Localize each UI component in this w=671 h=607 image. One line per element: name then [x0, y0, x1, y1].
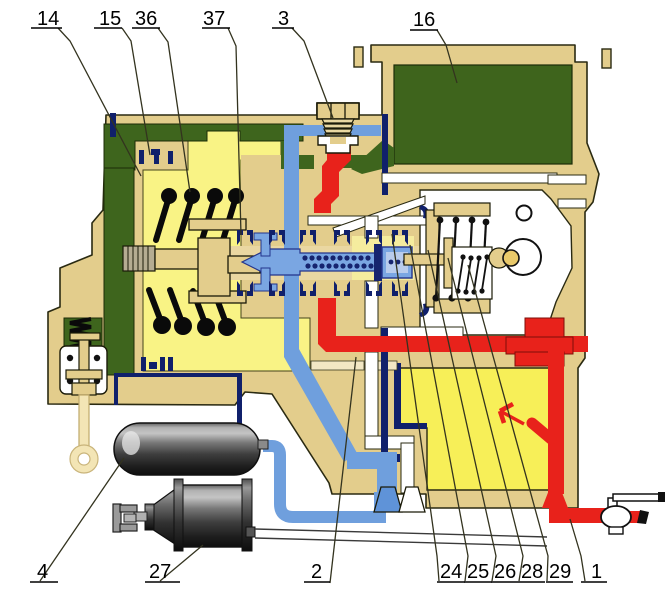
pale yellow around spool end [352, 236, 414, 280]
svg-text:1: 1 [591, 561, 602, 583]
numbers top [37, 8, 435, 31]
release valve T-handle [70, 333, 100, 340]
light cream passage strip left [311, 361, 364, 370]
brake chamber 27 cone [152, 487, 178, 546]
pull rod [79, 395, 89, 450]
drain valve handle arm [613, 494, 661, 501]
drain valve handle riser [608, 498, 617, 508]
leader 26 [428, 250, 496, 581]
inner spring box [452, 247, 492, 299]
small circle top [517, 206, 532, 221]
numbers bottom [37, 561, 602, 583]
piston stem right [228, 256, 260, 273]
svg-text:3: 3 [278, 8, 289, 30]
leader 16 [437, 30, 457, 83]
leader lines [40, 28, 585, 583]
number underlines bottom [30, 581, 607, 583]
tank highlight [122, 431, 140, 455]
red bell fitting [542, 490, 568, 508]
drain valve ball 1 [601, 506, 631, 528]
leader 4 [40, 458, 124, 581]
navy vertical channel upper part 2 [382, 183, 388, 195]
reservoir mounting tab left [354, 47, 363, 67]
white channel W5 horizontal [381, 327, 463, 337]
fitting 3 seat insert [330, 137, 346, 144]
fitting 3 valve seat [318, 136, 358, 153]
svg-text:37: 37 [203, 8, 225, 30]
pusher dome [489, 248, 509, 268]
inner mini spring [458, 258, 487, 291]
svg-text:28: 28 [521, 561, 543, 583]
blue elbow to port [347, 452, 396, 469]
piston return springs bottom coils [149, 290, 227, 326]
svg-text:2: 2 [311, 561, 322, 583]
seal row bottom [237, 281, 408, 296]
navy horizontal stub near port [367, 454, 400, 462]
seal row top [237, 230, 408, 245]
white channel W4 vertical lower [365, 352, 378, 438]
navy vertical channel lower (x 381) [381, 328, 388, 483]
svg-text:29: 29 [549, 561, 571, 583]
red vertical pipe right [548, 344, 564, 494]
chamber entrance navy seal bottom [419, 303, 429, 317]
black tip of drain pipe [637, 510, 649, 524]
tan wall above spool [241, 155, 353, 230]
leader 28 [448, 258, 523, 581]
spool cage window [386, 252, 408, 273]
dark green band 2a [289, 155, 314, 169]
piston block 37 [198, 238, 230, 296]
blue horizontal pipe under fitting [287, 125, 381, 136]
leader 37 [228, 28, 241, 235]
spool coil dots [302, 255, 373, 268]
navy tick top-left [110, 113, 116, 137]
svg-text:36: 36 [135, 8, 157, 30]
svg-text:16: 16 [413, 9, 435, 31]
white channel W4 down to port [401, 443, 414, 493]
white slot finger lower right [558, 199, 586, 208]
follow spring cage bottom bar [434, 299, 490, 313]
navy channel vertical at x237 [237, 373, 242, 425]
spool poppet stem lower [254, 268, 277, 291]
dark green band 2b [337, 155, 380, 168]
twin pipe to drain [255, 529, 547, 537]
air hose from tank (external) [263, 446, 380, 517]
spring bottom end dots [153, 316, 236, 336]
air tank 4 [114, 423, 260, 475]
white channel W3 diagonal [333, 196, 425, 237]
reservoir mounting tab right [602, 49, 611, 68]
white channel W4 vertical upper [365, 216, 378, 238]
brake chamber right rim [242, 479, 252, 551]
chamber main springs [436, 220, 486, 298]
white slot finger upper right [548, 175, 586, 184]
leader 3 [292, 28, 333, 118]
red channel lower vertical and horizontal to governor [318, 298, 588, 352]
clevis fork [113, 504, 121, 532]
red drain pipe bottom [549, 508, 606, 523]
small tan circle [503, 250, 519, 266]
blue diagonal channel to port [284, 349, 357, 462]
release valve cross bar [66, 370, 102, 379]
dark green wedge to filter [351, 140, 394, 174]
drain valve lower stem [609, 527, 623, 534]
brake chamber left rim [174, 479, 183, 551]
chamber entrance navy seal top [419, 205, 429, 219]
follow spring cage top bar [434, 203, 490, 216]
navy channel vertical at x116 [114, 373, 118, 405]
leader 15 [122, 28, 150, 155]
follow spring cage left wall [426, 210, 439, 307]
svg-text:25: 25 [467, 561, 489, 583]
spring top end dots [161, 188, 244, 204]
spool end cage blue [382, 247, 412, 278]
red ribbed block [506, 318, 573, 366]
dark green band top-left [104, 124, 303, 170]
bright yellow lower-right chamber [396, 368, 549, 490]
release valve bottom block [72, 383, 96, 395]
leader 14 [58, 28, 141, 176]
number underlines top [31, 28, 438, 30]
left pale yellow spring chamber [143, 141, 310, 371]
red channel from fitting 3 [314, 146, 351, 213]
chamber T plate [444, 238, 453, 288]
port bell left (blue) [374, 487, 402, 512]
svg-text:15: 15 [99, 8, 121, 30]
dark green column left [104, 168, 134, 375]
navy left edge of yellow chamber [394, 363, 401, 429]
navy seal cluster bottom-left [141, 357, 173, 371]
svg-text:4: 4 [37, 561, 48, 583]
navy channel horizontal bottom-left [118, 373, 238, 377]
navy vertical channel upper (x 381) [382, 114, 388, 173]
spool valve blue arrow [242, 249, 380, 275]
stem into chamber [404, 254, 452, 265]
fitting 3 hex head [317, 103, 359, 119]
release valve stem [79, 333, 89, 393]
big circle [505, 239, 541, 275]
white channel W4 vertical mid [365, 281, 378, 328]
light cream passage strip right [377, 361, 397, 370]
brake chamber nipple [246, 527, 255, 537]
red flow arrow head [500, 404, 513, 423]
tank nipple [258, 440, 268, 449]
red flow arrow stub [532, 423, 551, 439]
svg-text:27: 27 [149, 561, 171, 583]
release valve body [60, 346, 107, 394]
fitting 3 hex facets [331, 103, 345, 119]
drain valve handle tip [658, 492, 665, 502]
brake chamber small hub [145, 504, 154, 530]
red flow arrow shaft [502, 412, 524, 424]
release valve seals [67, 355, 100, 384]
svg-text:14: 14 [37, 8, 59, 30]
white slot under reservoir [382, 173, 557, 183]
main valve body housing [48, 45, 599, 508]
leader 24 [392, 234, 439, 581]
svg-text:24: 24 [440, 561, 462, 583]
spool cage dots [389, 260, 408, 265]
spool end plate navy [374, 244, 382, 281]
filter element 16 (dark green) [394, 65, 572, 164]
brake chamber push rod [134, 512, 147, 521]
leader 27 [160, 545, 203, 581]
blue vertical supply pipe [284, 125, 299, 355]
adjusting screw threads [123, 246, 155, 271]
port bell right (white) [399, 487, 425, 512]
leader 29 [468, 265, 548, 581]
white channel W4 elbow [365, 436, 414, 449]
release valve spring [70, 319, 91, 347]
white channel W2 horizontal [308, 216, 428, 225]
dark green block around release-valve spring [64, 318, 102, 348]
blue channel above left port [377, 452, 397, 502]
yellow notch in green band [207, 131, 240, 142]
dark green band 2 L-connector [281, 141, 289, 169]
white piston chamber (pentagon) [420, 190, 572, 335]
piston lower guide bar [189, 291, 246, 303]
piston upper guide bar [189, 219, 246, 230]
leader 2 [330, 357, 356, 583]
spool poppet stem upper [254, 233, 277, 256]
navy step of yellow chamber [394, 423, 427, 429]
pull ring [74, 449, 94, 469]
spool bore (light tan strip) [230, 246, 422, 280]
leader 36 [158, 28, 190, 192]
red stub right of drain valve [626, 511, 642, 523]
leader 25 [410, 245, 468, 581]
navy seal cluster top-left [139, 149, 173, 164]
piston return springs 36/37 top coils [156, 197, 236, 240]
piston rod [155, 249, 200, 269]
svg-text:26: 26 [494, 561, 516, 583]
fitting 3 threads [322, 119, 354, 138]
brake chamber 27 body [177, 485, 245, 547]
leader 1 [570, 519, 585, 581]
